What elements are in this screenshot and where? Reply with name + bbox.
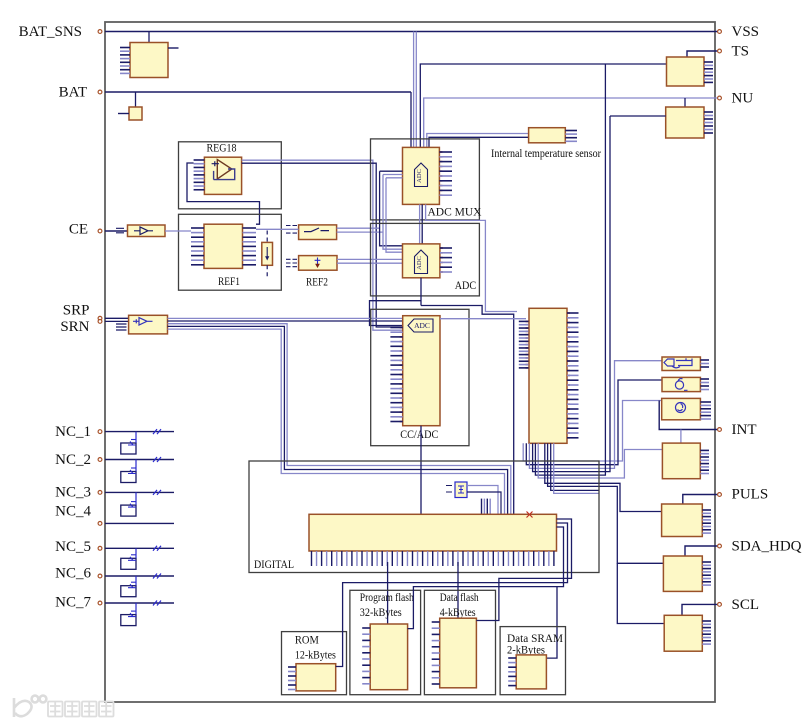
block U5 digital filter <box>529 308 567 443</box>
wire ADC MUX aux output down right side <box>426 204 517 311</box>
block CE buffer <box>128 225 166 237</box>
wire net NC_2 <box>105 459 174 461</box>
U2 right pins <box>704 62 713 82</box>
svg-text:SRN: SRN <box>60 319 89 335</box>
ROM left pins <box>288 667 296 690</box>
current source I1 <box>262 242 273 265</box>
wire net NC_5 <box>105 547 174 549</box>
pin marker <box>98 458 102 462</box>
CC/ADC left pins <box>390 328 402 422</box>
SDA driver right pins <box>702 562 711 585</box>
pin marker <box>718 603 722 607</box>
ADC MUX outline <box>371 139 480 220</box>
wire <box>421 204 423 244</box>
svg-text:ADC: ADC <box>416 256 423 270</box>
wire sense amp outputs <box>168 317 403 319</box>
DIGITAL top pin stubs <box>482 499 491 515</box>
svg-text:12-kBytes: 12-kBytes <box>295 650 336 662</box>
wire <box>457 562 459 618</box>
ADC outline <box>371 223 480 296</box>
CC/ADC pentagon label <box>408 319 433 332</box>
zener glyph <box>315 258 321 265</box>
wire net TS <box>687 51 718 57</box>
junction marker <box>527 512 533 518</box>
svg-text:PULS: PULS <box>732 487 769 503</box>
pin marker <box>98 30 102 34</box>
svg-text:REF2: REF2 <box>306 277 328 289</box>
break symbol on NC_5 <box>153 546 161 551</box>
pin marker <box>718 493 722 497</box>
capacitor block C1 on BAT <box>129 107 142 120</box>
svg-text:SCL: SCL <box>732 597 760 613</box>
pin marker <box>98 491 102 495</box>
U5 right pins <box>567 313 579 438</box>
wire program flash to memory bus <box>408 527 564 629</box>
SRP/SRN amp left stubs <box>116 324 127 330</box>
program flash left pins <box>362 628 370 684</box>
op-amp glyph <box>133 318 153 325</box>
wire BAT drop to ADC MUX <box>410 92 412 147</box>
REF2 switch left stubs <box>286 226 297 234</box>
svg-text:DIGITAL: DIGITAL <box>254 559 294 571</box>
block ADC core <box>403 244 440 278</box>
svg-text:NU: NU <box>732 90 754 106</box>
wire temp sensor to ADC MUX pair <box>427 134 529 148</box>
DIGITAL outline <box>249 461 599 573</box>
wire net NC_4 <box>105 522 174 524</box>
svg-text:NC_5: NC_5 <box>55 539 91 555</box>
svg-text:NC_7: NC_7 <box>55 595 91 611</box>
wire VSS drop 2 <box>415 32 417 148</box>
wire <box>419 204 421 244</box>
wire INT block top pin <box>680 430 682 444</box>
break symbol on NC_1 <box>153 429 161 434</box>
break symbol on NC_3 <box>153 490 161 495</box>
block REG18 LDO <box>204 157 241 194</box>
watermark pseudo-glyphs <box>48 702 114 717</box>
block DIGITAL core <box>309 514 557 551</box>
svg-text:BAT: BAT <box>59 84 87 100</box>
wire <box>387 562 389 624</box>
block U2 TS input <box>667 57 705 86</box>
watermark logo <box>14 696 46 717</box>
high-freq osc right pins <box>700 402 711 419</box>
wire net NC_6 <box>105 575 174 577</box>
CC/ADC outline <box>371 309 469 445</box>
wire net SDA_HDQ <box>685 546 718 556</box>
wire TS sense line to ADC MUX <box>420 64 666 147</box>
svg-text:NC_3: NC_3 <box>55 484 91 500</box>
wire net SRP <box>105 317 129 319</box>
block ROM array <box>296 664 336 691</box>
pin marker <box>718 30 722 34</box>
svg-text:NC_1: NC_1 <box>55 424 91 440</box>
Data flash outline <box>424 590 495 694</box>
svg-text:CE: CE <box>69 222 88 238</box>
U1 left pins <box>120 48 130 74</box>
pin marker <box>98 316 102 320</box>
svg-text:NC_4: NC_4 <box>55 504 91 520</box>
switch glyph <box>304 228 329 232</box>
pin marker <box>98 430 102 434</box>
svg-text:Internal temperature sensor: Internal temperature sensor <box>491 148 601 160</box>
break symbol on NC_6 <box>153 574 161 579</box>
block REF2 reference <box>299 256 337 271</box>
wire net CE <box>105 230 128 232</box>
svg-text:BAT_SNS: BAT_SNS <box>19 24 82 40</box>
pin marker <box>98 601 102 605</box>
block temperature sensor <box>529 128 566 143</box>
block INT driver <box>662 443 700 479</box>
svg-text:ROM: ROM <box>295 635 319 647</box>
wire net INT <box>659 401 718 430</box>
pin marker <box>98 229 102 233</box>
U3 right pins <box>704 112 713 133</box>
svg-text:ADC: ADC <box>416 169 423 183</box>
wire C1 left stub <box>118 113 129 115</box>
block SDA_HDQ driver <box>663 556 702 591</box>
ADC right pins <box>440 248 452 272</box>
block program flash array <box>370 624 407 690</box>
wire net PULS <box>683 495 718 505</box>
REF1 left pins <box>191 228 204 265</box>
U5 left pins <box>519 321 529 367</box>
block data SRAM array <box>516 655 546 689</box>
wire REF2 outputs to ADC <box>337 258 403 260</box>
wire <box>420 426 422 515</box>
svg-text:SDA_HDQ: SDA_HDQ <box>732 539 802 555</box>
svg-text:NC_6: NC_6 <box>55 566 91 582</box>
wire MUX internal bus verticals <box>380 171 403 246</box>
block ADC MUX core <box>403 147 440 204</box>
wire ADC output down-left to CC/ADC <box>370 278 422 326</box>
pin marker <box>98 320 102 324</box>
pin marker <box>718 49 722 53</box>
svg-text:VSS: VSS <box>732 24 760 40</box>
block U3 NU input <box>666 107 704 138</box>
wire net NC_7 <box>105 602 174 604</box>
pin marker <box>718 544 722 548</box>
oscillator symbol <box>446 482 467 498</box>
wire net NU <box>424 98 718 147</box>
svg-text:Data SRAM: Data SRAM <box>507 633 563 645</box>
SCL driver right pins <box>702 621 711 644</box>
op-amp glyph in REG18 <box>212 160 235 180</box>
svg-text:4-kBytes: 4-kBytes <box>440 607 476 619</box>
break symbol on NC_2 <box>153 457 161 462</box>
wire U1 right stub <box>168 47 179 49</box>
data flash left pins <box>432 622 440 684</box>
regulator REG18 outline <box>179 142 282 209</box>
outer chip boundary frame <box>105 22 715 702</box>
DIGITAL bottom pins <box>312 551 554 566</box>
svg-text:ADC MUX: ADC MUX <box>428 206 482 218</box>
data SRAM left pins <box>508 658 516 686</box>
wire C1 top pin <box>135 92 137 107</box>
wire net BAT_SNS/VSS top rail <box>105 31 718 33</box>
svg-text:ADC: ADC <box>414 321 430 330</box>
svg-text:ADC: ADC <box>455 280 477 292</box>
ADC pentagon label <box>415 250 428 274</box>
wire REG18 feedback to REF1 <box>187 163 260 224</box>
svg-text:INT: INT <box>732 422 757 438</box>
low-freq osc glyph <box>675 378 687 390</box>
wire U1 top pin <box>148 32 150 43</box>
wire ADC aux to DIGITAL long vertical <box>421 306 514 515</box>
block high-freq osc <box>662 398 701 419</box>
block U1 battery sense front-end <box>130 43 168 78</box>
INT driver right pins <box>700 450 709 473</box>
pin marker <box>718 96 722 100</box>
block REF2 switch <box>299 225 337 240</box>
pin marker <box>718 428 722 432</box>
reference REF1 outline <box>179 214 282 290</box>
wire CE to REF1 <box>165 230 191 232</box>
svg-text:NC_2: NC_2 <box>55 452 91 468</box>
wire net SCL <box>682 604 718 615</box>
Program flash outline <box>350 590 421 694</box>
wake comparator right pins <box>700 360 709 367</box>
block PULS driver <box>662 504 703 537</box>
wire VSS drop 1 <box>413 32 415 148</box>
pin marker <box>98 522 102 526</box>
wire bus U5 to right-side peripherals <box>523 401 662 462</box>
svg-text:32-kBytes: 32-kBytes <box>360 607 402 619</box>
ESD clamp on NC_2 <box>121 460 136 483</box>
REF1 right pins <box>243 228 257 265</box>
svg-text:TS: TS <box>732 44 750 60</box>
wire net NC_1 <box>105 431 174 433</box>
ESD clamp on NC_3 <box>121 492 136 516</box>
svg-text:REF1: REF1 <box>218 276 240 288</box>
wire U3 top pin <box>684 98 686 107</box>
ADC pentagon label in MUX <box>415 163 428 187</box>
wire data flash to memory bus <box>476 519 571 621</box>
block SCL driver <box>664 615 702 651</box>
svg-text:Data flash: Data flash <box>440 592 479 604</box>
REG18 left pins <box>194 160 205 190</box>
block data flash array <box>440 618 477 688</box>
wire net BAT <box>105 91 411 93</box>
high-freq osc glyph <box>676 403 686 413</box>
wire osc to DIGITAL core <box>467 486 498 515</box>
block U4 sense amplifier <box>129 315 168 334</box>
svg-text:SRP: SRP <box>63 303 90 319</box>
ESD clamp on NC_5 <box>121 548 136 569</box>
wire U3 left line to right bus <box>610 115 666 117</box>
wire net NC_3 <box>105 491 174 493</box>
break symbol on NC_7 <box>153 601 161 606</box>
PULS driver right pins <box>702 510 711 533</box>
svg-text:Program flash: Program flash <box>360 592 414 604</box>
wire switch outputs to ADC MUX <box>337 227 380 229</box>
REF2 reference left stubs <box>286 259 297 266</box>
wire REF1 to REF2 switch <box>256 228 299 230</box>
ESD clamp on NC_1 <box>121 432 136 454</box>
block REF1 bandgap <box>204 224 243 268</box>
wire net SRN <box>105 320 129 322</box>
block CC/ADC core <box>403 316 440 426</box>
wire REG18 output pair <box>242 160 403 330</box>
block wake comparator <box>662 357 700 371</box>
Data SRAM outline <box>500 627 565 695</box>
low-freq osc right pins <box>700 379 709 390</box>
ESD clamp on NC_7 <box>121 603 136 626</box>
pin marker <box>98 574 102 578</box>
pin marker <box>98 90 102 94</box>
block low-freq osc <box>662 377 700 391</box>
svg-text:REG18: REG18 <box>207 143 237 155</box>
ADC MUX right pins <box>439 152 452 195</box>
ROM outline <box>282 632 347 695</box>
svg-text:CC/ADC: CC/ADC <box>400 429 438 441</box>
wire CC/ADC right top line <box>440 318 526 320</box>
wire data SRAM to memory bus <box>546 587 557 659</box>
wake comparator glyph <box>664 358 692 368</box>
pin marker <box>98 546 102 550</box>
wire ROM to memory bus <box>336 523 568 667</box>
ESD clamp on NC_6 <box>121 576 136 597</box>
temp sensor right pins <box>565 131 577 142</box>
